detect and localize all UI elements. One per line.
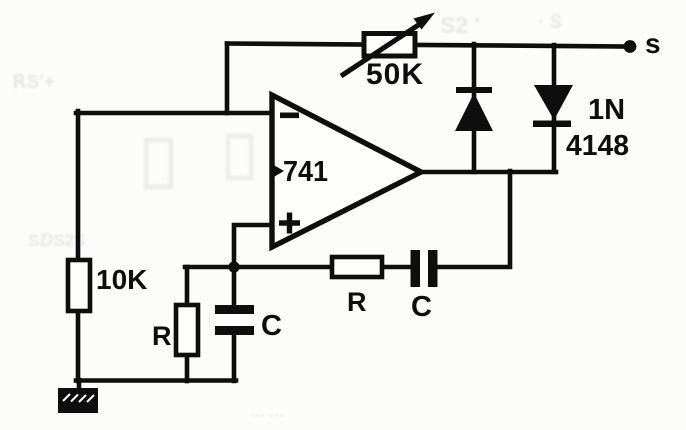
svg-text:S2 ′: S2 ′ — [440, 12, 481, 38]
label 1N 4148 — [566, 94, 629, 162]
svg-text:R: R — [152, 321, 172, 351]
resistor 10K body — [68, 260, 90, 311]
ground — [58, 388, 98, 413]
wire right diode branch vertical — [552, 45, 557, 172]
op-amp U1 741 — [272, 95, 421, 247]
wire shunt capacitor bottom lead to ground rail — [232, 334, 237, 381]
svg-text:⋯ ⋯: ⋯ ⋯ — [250, 407, 284, 424]
diode D2 right (anode up cathode down) — [533, 85, 573, 127]
potentiometer 50K wiper arrow — [341, 13, 435, 77]
svg-text:C: C — [261, 310, 282, 342]
capacitor C series plates — [411, 250, 438, 287]
wire feedback vertical from top rail down to inverting input line — [225, 44, 230, 114]
wire 10K bottom to ground corner — [76, 309, 81, 381]
wire ground stub — [77, 380, 82, 390]
svg-text:741: 741 — [283, 156, 328, 188]
op-amp inverting input minus symbol — [280, 113, 299, 119]
wire non-inverting input — [234, 225, 273, 267]
wire op-amp output — [419, 170, 556, 175]
wire shunt capacitor top lead — [232, 267, 237, 306]
svg-text:s: s — [645, 28, 661, 59]
op-amp non-inverting input plus symbol — [279, 213, 300, 234]
svg-text:4148: 4148 — [566, 130, 629, 162]
svg-text:C: C — [411, 291, 432, 323]
wire left branch vertical to 10K — [76, 111, 81, 262]
wire node horizontal at non-inverting junction — [185, 265, 411, 270]
wire bottom ground rail — [76, 378, 236, 383]
svg-text:50K: 50K — [366, 58, 424, 91]
capacitor C shunt plates — [215, 305, 254, 335]
svg-text:· S: · S — [538, 12, 562, 33]
diode D1 left (anode down cathode up) — [455, 87, 493, 131]
resistor R shunt body — [176, 305, 198, 355]
potentiometer 50K body — [364, 34, 415, 57]
svg-text:10K: 10K — [96, 264, 147, 295]
wire inverting input horizontal — [76, 111, 273, 116]
wire series C to feedback corner — [437, 171, 510, 267]
wire shunt R bottom to ground rail — [185, 353, 190, 381]
wire top rail from feedback corner to output terminal s — [227, 44, 629, 47]
junction node at non-inverting input — [228, 261, 239, 272]
svg-text:1N: 1N — [588, 94, 625, 126]
wire left diode branch vertical — [472, 44, 477, 172]
output terminal dot — [624, 40, 637, 53]
wire vertical to shunt resistor R — [185, 267, 190, 307]
svg-text:R: R — [347, 287, 367, 317]
svg-text:𝗥S′+: 𝗥S′+ — [12, 72, 55, 93]
resistor R series body — [332, 257, 382, 277]
